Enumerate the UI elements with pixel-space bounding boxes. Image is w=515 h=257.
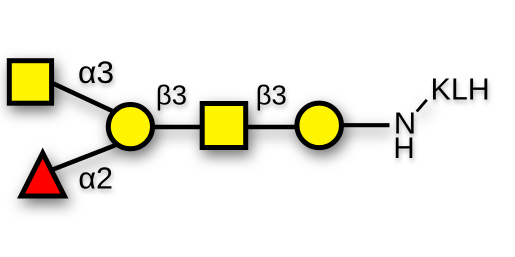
- Gal circle 1: [108, 105, 152, 149]
- svg-text:KLH: KLH: [431, 73, 490, 107]
- wire square1 to circle1 (a3 linkage): [38, 76, 124, 116]
- Gal circle 2: [297, 103, 342, 147]
- GalNAc square middle: [202, 104, 246, 148]
- svg-text:β3: β3: [156, 80, 187, 111]
- wire circle2 to N linker: [319, 123, 390, 127]
- wire circle1 to square2 (b3 linkage): [130, 125, 224, 130]
- wire triangle to circle1 (a2 linkage): [50, 143, 122, 171]
- wire square2 to circle2 (b3 linkage): [224, 125, 319, 130]
- svg-text:β3: β3: [256, 80, 287, 111]
- GalNAc square top-left: [9, 61, 51, 103]
- svg-text:α3: α3: [78, 54, 114, 90]
- Fuc triangle red: [21, 153, 64, 196]
- svg-text:H: H: [393, 132, 414, 165]
- wire N to KLH: [417, 100, 427, 112]
- svg-text:α2: α2: [78, 162, 113, 196]
